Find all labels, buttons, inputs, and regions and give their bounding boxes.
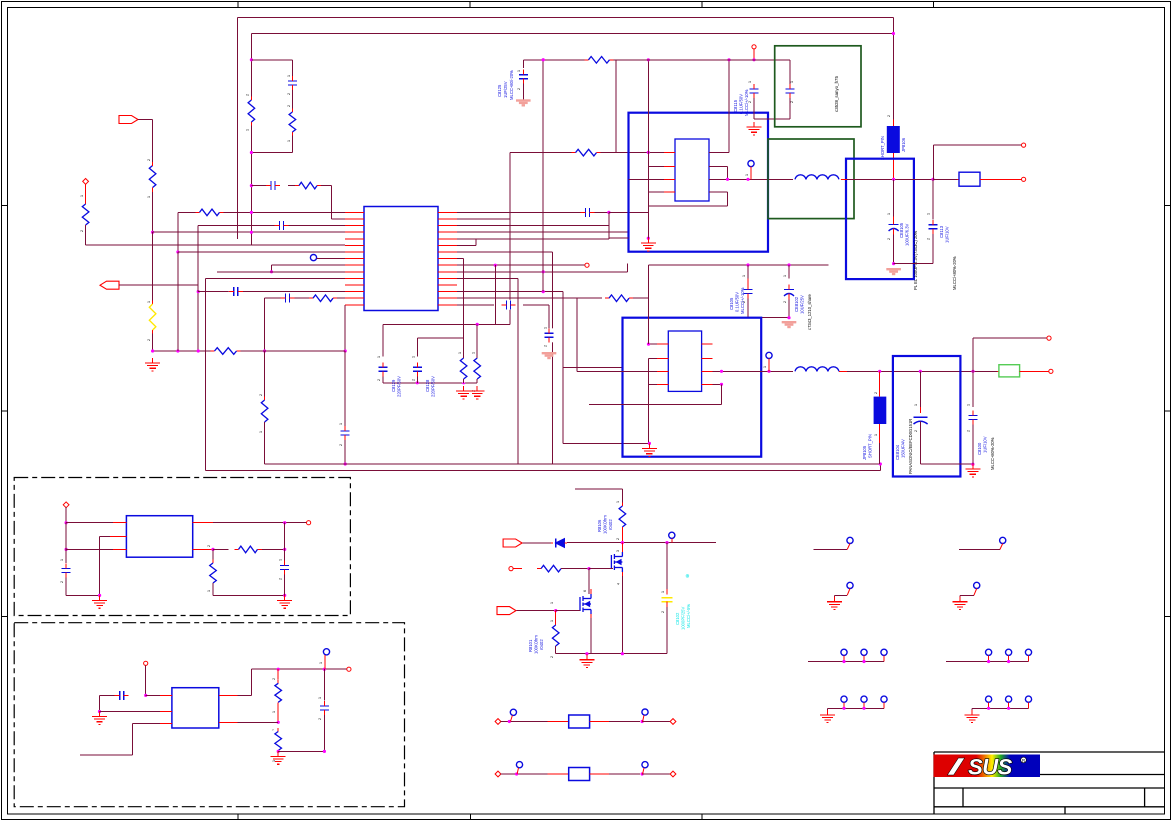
jumper JP8106 SHORT_PIN xyxy=(892,119,894,126)
svg-text:CE8104: CE8104 xyxy=(895,444,900,460)
wire y404.4 exit left xyxy=(589,403,722,405)
pin circle box1 output xyxy=(748,161,754,167)
wire loop top horizontal xyxy=(251,59,292,61)
svg-text:220PF/50V: 220PF/50V xyxy=(431,376,436,397)
wire U8101 pin2 right xyxy=(709,166,728,168)
capacitor C8106 xyxy=(544,328,554,342)
wire vertical x345.2 rail to cap xyxy=(344,351,346,426)
capacitor row14 xyxy=(281,293,295,303)
svg-text:r0402: r0402 xyxy=(608,519,613,530)
wire ldo2 out pin1 xyxy=(219,694,238,696)
resistor x463.6 xyxy=(459,355,468,383)
ground pink CE8102 xyxy=(782,321,797,323)
wire cap to bus1 xyxy=(344,440,346,464)
wire y371.3 to box5 xyxy=(847,370,997,372)
wire ldo2 pin3 xyxy=(160,722,172,724)
resistor rail xyxy=(211,347,241,356)
svg-text:1: 1 xyxy=(377,356,381,358)
wire row11 left xyxy=(206,277,345,279)
node row6 x177.9 xyxy=(176,250,179,253)
wire U8101 pin4 left xyxy=(648,191,664,193)
svg-text:2: 2 xyxy=(412,379,416,381)
wire diamond down xyxy=(65,507,67,523)
wire cap block top rail y324.4 xyxy=(383,323,510,325)
wire U8102 pin4 left xyxy=(649,383,657,385)
ground x463.6 xyxy=(463,386,465,391)
wire vertical x552.3 to bus1 xyxy=(551,252,553,464)
svg-text:MLCC+80/-20%: MLCC+80/-20% xyxy=(509,70,514,100)
terminal ldo2 out xyxy=(347,667,351,671)
ground ldo1 right xyxy=(284,595,286,600)
terminal ldo1 out xyxy=(307,521,311,525)
resistor R8101 xyxy=(555,611,557,624)
svg-text:2: 2 xyxy=(287,105,291,107)
wire vertical x152.6 row4 to rail xyxy=(152,232,154,351)
wire vertical x177.9 row6-rail xyxy=(177,252,179,351)
ground C8115 xyxy=(753,122,755,127)
header J4 pins with ground xyxy=(986,696,992,702)
svg-text:2: 2 xyxy=(279,578,283,580)
connector pin B1 xyxy=(847,582,853,588)
capacitor C8113 xyxy=(932,179,934,219)
input port top-left xyxy=(119,116,138,124)
svg-text:MLCC/+/-10%: MLCC/+/-10% xyxy=(740,287,745,314)
svg-text:C8128: C8128 xyxy=(425,379,430,392)
wire stub diamond down xyxy=(85,184,87,204)
IC U8101 right pin stubs xyxy=(709,151,720,153)
wire row8 right to C-block xyxy=(457,258,464,260)
title block frame xyxy=(934,752,1165,814)
svg-text:2: 2 xyxy=(887,115,891,117)
wire vertical x205.7 down to bus2 xyxy=(205,278,207,470)
ground inside box4 xyxy=(648,444,650,449)
ground ldo2 xyxy=(277,751,279,756)
svg-text:1: 1 xyxy=(661,591,665,593)
wire loop vertical x292 xyxy=(291,60,293,80)
svg-text:C8105: C8105 xyxy=(729,297,734,310)
wire U8102 pin3 right xyxy=(713,370,796,372)
node junction x152.6 row4 xyxy=(151,231,154,234)
wire ldo1 pin1 xyxy=(66,522,113,524)
green jumper rect xyxy=(997,370,999,372)
wire U8102 pin4 right xyxy=(713,383,722,385)
green box c3528_sanyo_h75 xyxy=(775,46,861,127)
wire vertical x509.8 xyxy=(509,153,511,325)
svg-text:MLCC+80%-20%: MLCC+80%-20% xyxy=(990,437,995,470)
capacitor ldo1 out xyxy=(284,523,286,550)
svg-text:100UF/6.3V: 100UF/6.3V xyxy=(905,223,910,246)
wire loop bottom horizontal xyxy=(251,152,292,154)
wire row6 left xyxy=(178,251,345,253)
wire bus2 y470.5 xyxy=(206,470,881,472)
ground pink C8125 xyxy=(516,99,531,101)
wire U8101 pin3 left xyxy=(629,178,665,180)
wire cap block mid rail y338 xyxy=(417,337,463,339)
ground rail x152.6 xyxy=(152,358,154,363)
svg-text:MLCC/+80%-20%: MLCC/+80%-20% xyxy=(952,256,957,290)
wire C8115 bottom xyxy=(753,98,755,119)
svg-text:JP8105: JP8105 xyxy=(862,445,867,460)
resistor R8106 xyxy=(618,503,627,531)
header J2 pins xyxy=(986,649,992,655)
node C8125 junction xyxy=(542,58,545,61)
svg-text:C8115: C8115 xyxy=(733,99,738,112)
jumper rect output row xyxy=(933,178,957,180)
jumper JP8105 SHORT_PIN xyxy=(879,371,881,396)
wire vertical x264.6 row14 to rail and resistor to bus1 xyxy=(264,298,266,351)
output port row12 xyxy=(100,281,119,289)
border tick marks xyxy=(237,1,239,8)
wire vertical x616 from VIN xyxy=(615,60,617,153)
svg-text:R8106: R8106 xyxy=(597,519,602,532)
wire vertical x608.9 xyxy=(608,212,610,238)
regulator IC U8101 xyxy=(675,139,709,201)
wire port to diode xyxy=(523,542,551,544)
wire ldo1 out pin2 xyxy=(193,548,213,550)
input port gate2 xyxy=(497,607,516,615)
svg-text:1: 1 xyxy=(517,70,521,72)
wire x648.5 y265 to pin1 xyxy=(648,265,650,344)
capacitor top-left loop xyxy=(287,76,297,90)
svg-text:1: 1 xyxy=(748,81,752,83)
wire row y185.6 with C and R xyxy=(251,185,266,187)
terminal output1 xyxy=(1022,143,1026,147)
ground box5 xyxy=(972,464,974,469)
wire cap block bottom rail y382.8 xyxy=(383,382,477,384)
svg-text:0.1UF/50V: 0.1UF/50V xyxy=(739,94,744,114)
regulator IC U8102 xyxy=(668,331,701,391)
svg-text:CE8105: CE8105 xyxy=(899,222,904,238)
wire mosfet source down xyxy=(621,576,623,654)
svg-text:C8100: C8100 xyxy=(977,442,982,455)
resistor R x152.6 xyxy=(148,162,157,191)
jumper row 1 with pins xyxy=(495,719,501,725)
wire y367.4 to box4 xyxy=(564,366,623,368)
svg-text:1UF/10V: 1UF/10V xyxy=(945,226,950,243)
svg-text:1: 1 xyxy=(339,423,343,425)
wire row11 right xyxy=(457,277,518,279)
svg-text:1: 1 xyxy=(80,195,84,197)
node x198.2 row13 xyxy=(197,290,200,293)
svg-text:2: 2 xyxy=(207,545,211,547)
wire vertical x648.7 to ground wire xyxy=(648,359,650,444)
capacitor CE8104 xyxy=(919,371,921,407)
wire row6 right xyxy=(457,244,476,246)
wire U8101 pin1 left xyxy=(648,151,664,153)
wire U8102 pin1 left xyxy=(649,343,658,345)
svg-text:2: 2 xyxy=(914,430,918,432)
svg-text:C8113: C8113 xyxy=(939,225,944,238)
svg-text:CE8102: CE8102 xyxy=(794,296,799,312)
wire y179.3 through box3 xyxy=(847,178,959,180)
resistor row185 xyxy=(295,181,321,190)
terminal diamond x85.6 xyxy=(83,179,89,185)
wire bus1 y464 xyxy=(265,463,881,465)
svg-text:SHORT_PIN: SHORT_PIN xyxy=(868,434,873,458)
wire vertical from bus1 to row5 xyxy=(237,18,239,239)
capacitor x345.2 xyxy=(340,426,350,440)
svg-text:1: 1 xyxy=(246,129,250,131)
resistor row14 xyxy=(309,294,337,303)
capacitor CE8102 polarized xyxy=(788,265,790,279)
wire ldo1 pin3 xyxy=(66,548,113,550)
wire mosfet2 drain xyxy=(590,589,592,594)
wire bus2 join bus1 xyxy=(879,464,881,471)
svg-text:c7343_1210_share: c7343_1210_share xyxy=(807,293,812,330)
svg-text:2: 2 xyxy=(517,88,521,90)
wire U8102 pin3 left xyxy=(577,370,657,372)
resistor loop x292 xyxy=(288,109,297,136)
svg-text:2: 2 xyxy=(967,430,971,432)
wire vertical x517.8 to bus1 xyxy=(517,278,519,464)
wire y443.4 into box4 xyxy=(563,442,650,444)
svg-text:c3528_sanyo_h75: c3528_sanyo_h75 xyxy=(834,76,839,112)
wire vertical x543.2 from VIN xyxy=(542,60,544,292)
wire ldo2 pin2 xyxy=(100,711,161,713)
wire row14 right xyxy=(457,297,602,299)
ground mosfet block xyxy=(586,655,588,660)
svg-text:1: 1 xyxy=(287,140,291,142)
svg-text:2: 2 xyxy=(339,444,343,446)
wire ldo2 pin1 xyxy=(146,694,160,696)
wire ldo2 out pin2 xyxy=(219,721,238,723)
svg-text:1: 1 xyxy=(914,404,918,406)
wire ldo1 pin2 xyxy=(110,535,126,537)
wire diode row to right xyxy=(567,542,716,544)
svg-text:1: 1 xyxy=(544,327,548,329)
svg-text:2: 2 xyxy=(272,678,276,680)
output cap box5 outline xyxy=(893,356,961,477)
header J1 pins xyxy=(841,649,847,655)
wire row3 left xyxy=(198,225,345,227)
resistor x85.6 xyxy=(81,201,90,229)
wire vertical x549 to C8106 xyxy=(548,305,550,332)
capacitor ldo2 in xyxy=(115,690,129,700)
svg-text:3: 3 xyxy=(616,550,620,552)
main controller IC U1 xyxy=(364,207,438,311)
ground ldo1 left xyxy=(99,595,101,600)
svg-text:⊕: ⊕ xyxy=(685,574,691,578)
main IC right pin stubs xyxy=(438,211,457,213)
node junction x251 y152.5 xyxy=(250,151,253,154)
resistor row1 xyxy=(196,208,224,217)
ground pink CE8105 xyxy=(886,268,901,270)
svg-text:2: 2 xyxy=(887,238,891,240)
pin circle diode row xyxy=(669,532,675,538)
svg-text:4: 4 xyxy=(616,583,620,585)
main IC left pin stubs xyxy=(345,211,364,213)
svg-text:R8101: R8101 xyxy=(528,639,533,652)
svg-text:PANASONIC/EEFCD0G151R: PANASONIC/EEFCD0G151R xyxy=(908,419,913,474)
wire vertical x198.2 row3 to rail xyxy=(197,226,199,351)
resistor y152.6 xyxy=(572,148,601,157)
capacitor C8115 xyxy=(749,84,759,98)
regulator IC U8103 xyxy=(126,516,192,558)
wire vertical x577 row14 down xyxy=(576,298,578,371)
wire row10 left xyxy=(217,271,345,273)
svg-text:1: 1 xyxy=(412,356,416,358)
svg-text:1: 1 xyxy=(472,352,476,354)
svg-text:2: 2 xyxy=(927,238,931,240)
ground pink C8106 xyxy=(542,352,557,354)
IC U8102 right pin stubs xyxy=(702,343,713,345)
wire x85.6 resistor to corner xyxy=(85,225,87,245)
connector pin A2 xyxy=(1000,537,1006,543)
capacitor C8102 yellow xyxy=(666,543,668,589)
svg-text:220PF/50V: 220PF/50V xyxy=(397,376,402,397)
svg-text:2: 2 xyxy=(259,394,263,396)
terminal diamond ldo1 xyxy=(63,502,69,508)
capacitor CE8105 xyxy=(893,179,895,216)
terminal output2 xyxy=(1022,177,1026,181)
wire bottom rail mosfet block xyxy=(556,653,667,655)
svg-text:1: 1 xyxy=(550,602,554,604)
pin circle ldo2 xyxy=(323,649,329,655)
svg-text:C8129: C8129 xyxy=(391,379,396,392)
wire x264.6 to bus1 corner xyxy=(264,422,266,464)
node junctions row1 xyxy=(250,211,253,214)
terminal output4 xyxy=(1049,369,1053,373)
wire row4 right xyxy=(457,231,629,233)
wire row10 right xyxy=(457,271,628,273)
wire row14 left xyxy=(265,297,345,299)
wire row2 right corner up xyxy=(457,218,510,220)
svg-text:1: 1 xyxy=(745,174,749,176)
svg-text:0.1UF/50V: 0.1UF/50V xyxy=(735,292,740,312)
svg-text:10UF/25V: 10UF/25V xyxy=(800,295,805,314)
wire row9 right xyxy=(457,264,585,266)
wire vertical x648.3 VIN to pin1 xyxy=(647,60,649,153)
mosfet Q8101 xyxy=(580,594,591,614)
diode D8101 xyxy=(554,538,566,549)
dashed box region 2 xyxy=(14,623,404,807)
wire row1 right with cap xyxy=(457,211,581,213)
svg-text:2: 2 xyxy=(318,718,322,720)
svg-text:SHORT_PIN: SHORT_PIN xyxy=(880,136,885,160)
node junction x251 y185.6 xyxy=(250,184,253,187)
svg-text:100KOhm: 100KOhm xyxy=(534,635,539,654)
wire JP8106 to node xyxy=(892,153,894,179)
svg-text:1: 1 xyxy=(783,275,787,277)
wire row5 right xyxy=(457,238,609,240)
capacitor row13 xyxy=(229,287,243,297)
wire vertical x463.6 row8 to cap block xyxy=(463,259,465,338)
capacitor C8125 xyxy=(522,60,524,68)
resistor ldo1 fb xyxy=(235,545,262,554)
wire x648.3 pin4 to y212 xyxy=(647,192,649,212)
wire port2 to mosfet xyxy=(517,610,556,612)
wire mosfet2 source xyxy=(590,614,592,618)
capacitor C8128 xyxy=(412,362,422,376)
regulator block box U8102 outline xyxy=(623,318,762,457)
svg-text:1: 1 xyxy=(927,213,931,215)
svg-text:2: 2 xyxy=(287,93,291,95)
wire U8101 pin2 left L xyxy=(649,166,664,168)
IC U8101 left pin stubs xyxy=(664,151,675,153)
svg-text:PL EL 100UF/6.3V(7343C) 20%: PL EL 100UF/6.3V(7343C) 20% xyxy=(913,230,918,290)
svg-text:C8125: C8125 xyxy=(497,84,502,97)
wire vertical x495.3 xyxy=(494,265,496,324)
svg-text:2: 2 xyxy=(246,94,250,96)
resistor row14 right xyxy=(605,294,633,303)
svg-text:SUS: SUS xyxy=(968,755,1013,780)
wire top bus line2 xyxy=(251,33,893,35)
capacitor row185 xyxy=(266,181,280,191)
svg-text:2: 2 xyxy=(80,230,84,232)
svg-text:C8102: C8102 xyxy=(675,612,680,625)
svg-text:2: 2 xyxy=(550,656,554,658)
wire U8101 pin4 right xyxy=(709,191,728,193)
wire y265 rail xyxy=(649,264,829,266)
svg-text:2: 2 xyxy=(544,345,548,347)
svg-text:1: 1 xyxy=(207,590,211,592)
svg-text:2: 2 xyxy=(783,301,787,303)
gate wire y568.6 xyxy=(509,567,513,571)
jumper row 2 with pins xyxy=(495,771,501,777)
pin circle row8 xyxy=(310,255,316,261)
svg-text:1UF/10V: 1UF/10V xyxy=(983,436,988,453)
green box inductor region xyxy=(768,139,854,219)
svg-text:1: 1 xyxy=(550,620,554,622)
capacitor row3 xyxy=(275,221,289,231)
capacitor C8129 xyxy=(378,362,388,376)
wire row9 left corner xyxy=(272,264,346,266)
svg-text:2: 2 xyxy=(377,379,381,381)
svg-text:1000PF/25V: 1000PF/25V xyxy=(681,607,686,630)
svg-text:100KOhm: 100KOhm xyxy=(603,515,608,534)
wire ldo2 bottom rail xyxy=(278,750,324,752)
capacitor inside green box xyxy=(789,60,791,84)
capacitor C8105 xyxy=(747,265,749,279)
svg-text:r0402: r0402 xyxy=(539,639,544,650)
svg-text:2: 2 xyxy=(874,392,878,394)
svg-text:1: 1 xyxy=(458,352,462,354)
svg-text:1: 1 xyxy=(887,213,891,215)
svg-text:1: 1 xyxy=(874,434,878,436)
wire vertical x562.8 to gnd wire xyxy=(562,292,564,444)
resistor yellow highlighted xyxy=(148,301,157,334)
wire row1 left xyxy=(178,211,345,213)
mosfet Q8106 xyxy=(611,552,622,572)
svg-text:2: 2 xyxy=(147,159,151,161)
wire vertical x251 bus2 chain xyxy=(250,34,252,246)
terminal circle ldo2 top xyxy=(144,661,148,665)
wire vertical x177.9 row1-row6 xyxy=(177,212,179,252)
wire row7 right xyxy=(457,251,552,253)
wire upper output y145 xyxy=(933,145,935,179)
pin circle box4 output xyxy=(766,352,772,358)
svg-text:150UF/4V: 150UF/4V xyxy=(901,439,906,458)
wire y59.8 VIN segment right xyxy=(523,59,588,61)
svg-text:MLCC/+/-5%: MLCC/+/-5% xyxy=(686,604,691,628)
wire row13 right xyxy=(457,291,563,293)
connector pin A1 xyxy=(847,537,853,543)
wire row2 left from corner x331 xyxy=(332,218,346,220)
wire row15 right xyxy=(457,304,494,306)
wire vertical x627.6 xyxy=(627,264,629,272)
svg-text:1: 1 xyxy=(147,196,151,198)
inductor L8102 xyxy=(793,364,841,374)
svg-text:1: 1 xyxy=(147,301,151,303)
wire port to corner xyxy=(138,119,153,121)
svg-text:1: 1 xyxy=(272,711,276,713)
wire vertical x152.6 to row4 xyxy=(152,192,154,232)
wire ldo2 vin xyxy=(145,665,147,695)
wire row13 left xyxy=(198,291,345,293)
wire CE8104 bottom xyxy=(920,463,973,465)
ground ldo2 left xyxy=(99,712,101,717)
header J3 pins with ground xyxy=(841,696,847,702)
